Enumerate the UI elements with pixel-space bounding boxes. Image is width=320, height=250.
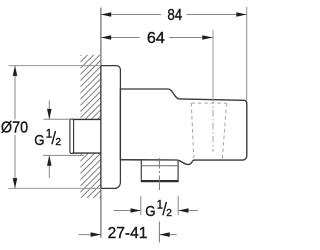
dimension 84 <box>101 14 247 16</box>
64 extension line + cup center line <box>212 30 214 97</box>
inlet G1/2 dimension <box>44 118 71 120</box>
wall plate (escutcheon) <box>101 66 121 189</box>
outlet nipple G1/2 <box>141 160 179 183</box>
holder cup hidden outline (dashed) <box>191 103 226 159</box>
dimension 64 <box>101 37 213 39</box>
svg-text:64: 64 <box>147 30 165 47</box>
svg-text:1: 1 <box>46 129 52 141</box>
wall section hatching <box>60 20 110 244</box>
body bottom edge over nipple <box>120 159 177 161</box>
svg-text:27-41: 27-41 <box>108 225 148 242</box>
svg-text:Ø70: Ø70 <box>1 119 29 136</box>
wall face line / extension line for 84-64 dims / 27-41 left extension <box>100 8 102 238</box>
svg-text:84: 84 <box>167 7 182 24</box>
dimension D70 <box>9 65 101 67</box>
svg-text:G: G <box>145 203 155 220</box>
svg-text:2: 2 <box>166 208 172 219</box>
outlet center line (dash-dot) down to 27-41 extension <box>158 158 160 243</box>
svg-text:G: G <box>34 132 44 149</box>
inlet nipple G1/2 (behind wall) <box>70 119 101 153</box>
svg-text:1: 1 <box>157 200 163 212</box>
outlet G1/2 dimension <box>140 196 142 215</box>
svg-text:2: 2 <box>55 137 61 148</box>
right extension line for 84 dim <box>246 7 248 101</box>
body arm + holder head outline <box>120 89 246 165</box>
dimension 27-41 <box>79 234 101 236</box>
